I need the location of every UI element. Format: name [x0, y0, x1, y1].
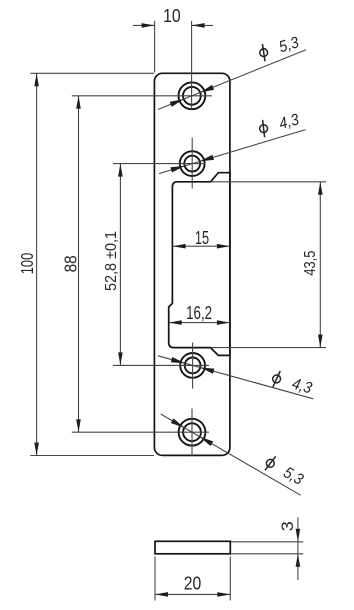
dim 52,8 dimension line — [119, 164, 121, 366]
hole H2 vertical centerline — [191, 138, 193, 189]
dim 43,5 top extension line — [211, 181, 327, 183]
dim 3 bottom extension line — [231, 553, 303, 555]
svg-text:100: 100 — [17, 253, 37, 275]
dim 16,2 left arrowhead — [169, 320, 182, 325]
svg-text:5,3: 5,3 — [280, 464, 306, 488]
svg-text:88: 88 — [60, 255, 80, 272]
side view plate section outline — [155, 541, 230, 554]
dim 88 dimension line — [78, 96, 80, 432]
hole H3 vertical centerline — [192, 343, 194, 389]
svg-text:4,3: 4,3 — [277, 111, 301, 133]
hole H3 (lower middle, D4.3) bore circle — [185, 358, 201, 374]
dim 10 left arrow tail — [133, 24, 155, 26]
dim 52,8 bottom arrowhead — [118, 352, 123, 365]
dim 3 dimension line — [297, 517, 299, 580]
dim 43,5 top arrowhead — [318, 182, 323, 195]
dim 100 bottom arrowhead — [34, 443, 39, 456]
svg-text:10: 10 — [163, 6, 181, 26]
dim 15 dimension line — [173, 245, 230, 247]
svg-text:15: 15 — [195, 228, 209, 248]
dim 20 left arrowhead — [155, 592, 168, 597]
dim 10 right arrowhead — [192, 23, 205, 28]
dim 88 bottom arrowhead — [76, 419, 81, 432]
dim 20 right extension line — [229, 557, 231, 601]
hole H4 (bottom, D5.3) bore circle — [183, 423, 201, 441]
hole H4 horizontal centerline / extension of dim 88 — [72, 431, 209, 433]
hole H2 (upper middle, D4.3) bore circle — [184, 156, 200, 172]
label D 4,3 for hole H2 — [258, 111, 301, 138]
svg-text:52,8 ±0,1: 52,8 ±0,1 — [103, 231, 120, 291]
dim 43,5 bottom extension line — [211, 347, 327, 349]
dim 20 left extension line — [154, 557, 156, 601]
leader line dim D5,3 hole H4 — [161, 414, 301, 495]
dim 16,2 dimension line — [169, 322, 230, 324]
leader line dim D4,3 hole H3 — [158, 356, 313, 399]
hole H2 (upper middle, D4.3) countersink circle — [180, 151, 205, 176]
dim 43,5 dimension line — [319, 182, 321, 348]
dim 10 left extension line — [154, 21, 156, 73]
dim 16,2 right arrowhead — [217, 320, 230, 325]
dim 100 top arrowhead — [34, 73, 39, 86]
label D 5,3 for hole H1 — [257, 34, 301, 63]
dim 3 bottom arrowhead (pointing up) — [296, 554, 301, 567]
plate front view outline — [154, 73, 230, 455]
dim 10 left arrowhead — [142, 23, 155, 28]
svg-text:43,5: 43,5 — [302, 251, 319, 276]
dim 100 bottom extension line — [30, 455, 154, 457]
dim 100 dimension line — [36, 73, 38, 455]
label D 5,3 for hole H4 — [263, 454, 307, 489]
hole H4 (bottom, D5.3) countersink circle — [179, 419, 206, 446]
dim 3 top arrowhead (pointing down) — [296, 529, 301, 542]
dim 10 right arrow tail — [192, 24, 213, 26]
svg-text:4,3: 4,3 — [290, 376, 314, 398]
dim 88 top arrowhead — [76, 96, 81, 109]
dim 52,8 top arrowhead — [118, 164, 123, 177]
leader line dim D5,3 hole H1 — [158, 50, 306, 110]
svg-text:3: 3 — [278, 521, 297, 531]
dim 3 top extension line — [231, 541, 303, 543]
hole H3 horizontal centerline / extension of dim 52.8 — [113, 364, 209, 366]
dim 20 right arrowhead — [217, 592, 230, 597]
hole H2 horizontal centerline / extension of dim 52.8 — [113, 163, 205, 165]
leader line dim D4,3 hole H2 — [159, 130, 306, 174]
label D 4,3 for hole H3 — [270, 369, 313, 397]
latch cutout opening — [169, 173, 230, 356]
dim 15 right arrowhead — [217, 244, 230, 249]
hole H4 vertical centerline — [191, 409, 193, 457]
hole H1 vertical centerline / extension of dim 10 — [191, 21, 193, 110]
svg-text:20: 20 — [184, 574, 202, 594]
dim 20 dimension line — [155, 593, 230, 595]
dim 43,5 bottom arrowhead — [318, 335, 323, 348]
hole H1 (top, D5.3) countersink circle — [179, 82, 206, 109]
hole H1 (top, D5.3) bore circle — [183, 87, 201, 105]
dim 100 top extension line — [30, 72, 154, 74]
dim 15 left arrowhead — [173, 244, 186, 249]
hole H3 (lower middle, D4.3) countersink circle — [180, 353, 205, 378]
svg-text:16,2: 16,2 — [186, 303, 212, 323]
hole H1 horizontal centerline / extension of dim 88 — [72, 95, 212, 97]
